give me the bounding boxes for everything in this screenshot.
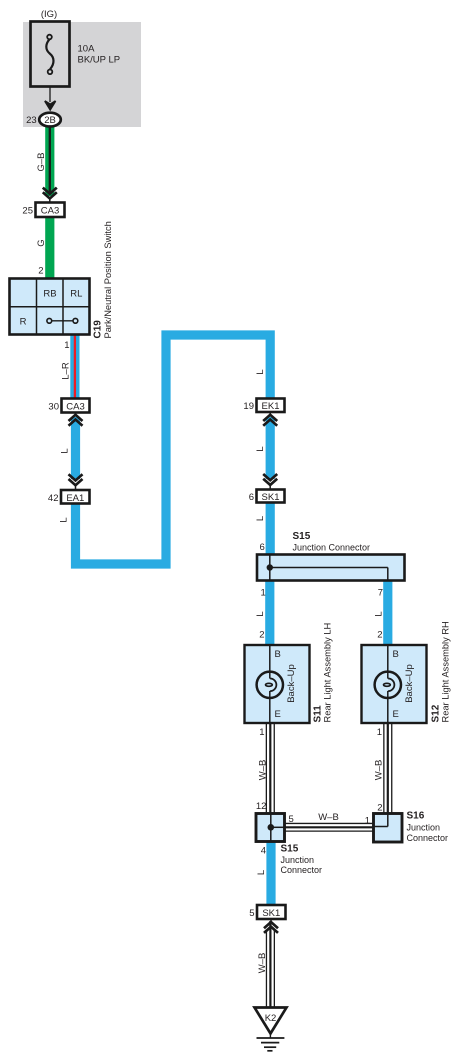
- svg-text:6: 6: [249, 492, 254, 503]
- svg-text:B: B: [275, 649, 281, 660]
- svg-text:L–R: L–R: [60, 362, 71, 380]
- svg-text:1: 1: [377, 727, 382, 738]
- svg-text:S15: S15: [293, 531, 311, 542]
- svg-text:L: L: [255, 516, 266, 521]
- svg-text:2: 2: [377, 803, 382, 814]
- svg-text:1: 1: [261, 588, 266, 599]
- svg-text:RL: RL: [70, 289, 82, 300]
- svg-text:CA3: CA3: [66, 402, 84, 413]
- svg-text:2B: 2B: [44, 115, 56, 126]
- svg-text:E: E: [393, 709, 399, 720]
- svg-text:1: 1: [259, 727, 264, 738]
- svg-text:SK1: SK1: [262, 492, 280, 503]
- svg-text:Rear Light Assembly LH: Rear Light Assembly LH: [323, 623, 333, 723]
- svg-text:Back–Up: Back–Up: [286, 664, 297, 703]
- svg-text:1: 1: [64, 340, 69, 351]
- svg-text:30: 30: [48, 402, 59, 413]
- svg-text:4: 4: [261, 846, 266, 857]
- svg-text:5: 5: [249, 908, 254, 919]
- svg-text:W–B: W–B: [258, 760, 269, 781]
- svg-text:2: 2: [38, 266, 43, 277]
- svg-text:Connector: Connector: [407, 833, 449, 843]
- svg-text:G: G: [36, 239, 47, 246]
- svg-text:L: L: [255, 369, 266, 374]
- svg-text:5: 5: [289, 814, 294, 825]
- svg-text:W–B: W–B: [257, 953, 268, 974]
- svg-text:BK/UP LP: BK/UP LP: [78, 55, 121, 66]
- svg-text:L: L: [59, 517, 70, 522]
- svg-text:Park/Neutral Position Switch: Park/Neutral Position Switch: [103, 221, 113, 338]
- svg-text:Junction: Junction: [407, 823, 441, 833]
- svg-text:R: R: [20, 317, 27, 328]
- svg-text:(IG): (IG): [41, 9, 57, 20]
- svg-text:7: 7: [378, 588, 383, 599]
- svg-text:L: L: [256, 870, 267, 875]
- svg-text:W–B: W–B: [374, 760, 385, 781]
- svg-text:CA3: CA3: [41, 206, 59, 217]
- svg-text:S15: S15: [281, 844, 299, 855]
- svg-text:19: 19: [243, 401, 254, 412]
- svg-text:2: 2: [377, 630, 382, 641]
- svg-text:E: E: [275, 709, 281, 720]
- svg-text:Back–Up: Back–Up: [404, 664, 415, 703]
- svg-text:42: 42: [48, 493, 59, 504]
- svg-text:S16: S16: [407, 811, 425, 822]
- svg-text:1: 1: [365, 816, 370, 827]
- svg-text:10A: 10A: [78, 44, 96, 55]
- svg-text:25: 25: [22, 206, 33, 217]
- svg-text:L: L: [255, 611, 266, 616]
- svg-text:G–B: G–B: [36, 152, 47, 171]
- svg-text:12: 12: [256, 801, 267, 812]
- svg-text:L: L: [373, 611, 384, 616]
- svg-text:Junction Connector: Junction Connector: [293, 543, 371, 553]
- svg-text:23: 23: [26, 115, 37, 126]
- svg-text:B: B: [393, 649, 399, 660]
- svg-text:RB: RB: [43, 289, 56, 300]
- svg-text:Connector: Connector: [281, 865, 323, 875]
- svg-text:SK1: SK1: [262, 908, 280, 919]
- svg-text:6: 6: [260, 542, 265, 553]
- svg-text:EA1: EA1: [66, 493, 84, 504]
- svg-text:L: L: [255, 446, 266, 451]
- svg-text:L: L: [60, 448, 71, 453]
- svg-text:C19: C19: [92, 320, 103, 339]
- svg-text:2: 2: [259, 630, 264, 641]
- svg-text:Rear Light Assembly RH: Rear Light Assembly RH: [441, 621, 451, 722]
- svg-text:Junction: Junction: [281, 855, 315, 865]
- svg-text:K2: K2: [265, 1013, 277, 1024]
- svg-text:W–B: W–B: [318, 812, 339, 823]
- svg-text:EK1: EK1: [262, 401, 280, 412]
